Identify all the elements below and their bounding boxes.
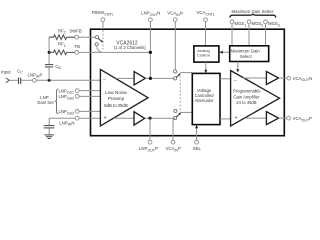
wire LNPINN to bypass cap: [49, 118, 75, 125]
svg-text:Maximum Gain Select: Maximum Gain Select: [232, 9, 275, 14]
box Voltage Controlled Attenuator: [192, 73, 220, 124]
wire buffer P to switch: [145, 117, 174, 119]
pin VCAOUTN terminal: [287, 76, 291, 80]
wire cap to ground: [48, 128, 50, 135]
svg-text:SEL: SEL: [193, 146, 202, 151]
junction FB/LNPOUTN: [149, 51, 152, 54]
wire buffer N to pin: [279, 77, 287, 79]
pin LNPOUTN terminal: [149, 18, 153, 22]
pin MGS3 terminal: [264, 20, 268, 24]
wire switch P to VCA box: [181, 111, 193, 113]
dashed control line FBSW: [102, 30, 104, 50]
wire SWFB into box: [79, 36, 96, 38]
feedback vertical wire: [48, 37, 50, 64]
svg-text:Attenuator: Attenuator: [195, 98, 215, 103]
switch P upper contact: [174, 109, 177, 112]
switch N blade: [176, 75, 179, 77]
wire buffer N to switch: [145, 77, 173, 79]
pin VCAOUTP terminal: [287, 116, 291, 120]
wire FB line to LNP out node: [79, 51, 151, 53]
svg-text:Control: Control: [197, 53, 210, 58]
svg-text:+: +: [104, 115, 107, 121]
svg-text:FB: FB: [75, 44, 81, 49]
wire VCA to PGA minus: [220, 78, 231, 80]
wire PGA out N to buffer: [243, 77, 266, 79]
feedback switch contact to FB line: [97, 46, 102, 52]
svg-text:5dB to 25dB: 5dB to 25dB: [104, 103, 128, 108]
resistor RF1: [49, 50, 75, 55]
pin SEL wire arrow into VCA: [196, 128, 198, 141]
junction LNPOUTP node: [148, 117, 151, 120]
pin LNPOUTP terminal: [148, 140, 152, 144]
arrow MGS to Analog Control: [223, 51, 230, 53]
wire FBSWCNTL down to box: [102, 22, 104, 30]
svg-text:SWFB: SWFB: [69, 28, 82, 33]
IC outline box VCA2612: [91, 29, 285, 136]
junction LNPOUTN node: [149, 77, 152, 80]
wire LNPGS3: [79, 110, 101, 112]
wire buffer P to pin: [279, 117, 287, 119]
pin SEL terminal: [195, 140, 199, 144]
wire VCAINP up to switch: [173, 118, 175, 140]
pin LNPINN terminal: [75, 116, 79, 120]
wire cap to LNPINP: [22, 79, 33, 81]
svg-text:Select: Select: [240, 54, 253, 59]
feedback switch blade: [98, 39, 101, 42]
svg-text:+: +: [235, 115, 238, 121]
box Analog Control: [194, 46, 219, 62]
bypass capacitor: [44, 125, 55, 127]
svg-text:(1 of 2 Channels): (1 of 2 Channels): [114, 45, 146, 50]
buffer LNP N: [134, 72, 145, 85]
junction RF1: [48, 51, 51, 54]
wire LNPOUTP down to pin: [149, 118, 151, 140]
buffer out N: [266, 72, 278, 85]
op-amp PGA triangle: [231, 71, 280, 127]
brace over MGS pins: [230, 14, 276, 18]
buffer out P: [266, 112, 278, 125]
pin FB terminal: [75, 51, 79, 55]
junction input/feedback: [48, 79, 51, 82]
wire LNP out N to buffer: [116, 77, 135, 79]
capacitor CB: [45, 64, 53, 66]
pin FBSWCNTL terminal: [101, 18, 105, 22]
switch N lower contact: [174, 77, 177, 80]
wire VCAINN down to switch: [174, 22, 176, 70]
wire input to cap: [9, 79, 17, 81]
op-amp LNP triangle: [100, 69, 148, 126]
arrow MGS to PGA: [237, 62, 239, 70]
wire LNPOUTN vertical: [149, 22, 151, 79]
wire MGS2: [248, 24, 250, 46]
pin LNPGS2 terminal: [75, 95, 79, 99]
svg-text:Maximum Gain: Maximum Gain: [231, 49, 261, 54]
wire PGA out P to buffer: [245, 117, 267, 119]
pin SWFB terminal: [75, 35, 79, 39]
LNP gain set brace: [55, 89, 58, 114]
pin VCACNTL terminal: [204, 18, 208, 22]
wire LNPGS1: [79, 90, 101, 92]
wire VCACNTL down to Analog Control: [205, 22, 207, 46]
switch P lower contact: [174, 117, 177, 120]
wire MGS3: [265, 24, 267, 46]
switch P blade: [176, 114, 179, 117]
feedback switch upper contact: [96, 36, 99, 39]
ground: [44, 134, 54, 136]
wire LNPINP into box: [36, 79, 101, 81]
svg-text:Preamp: Preamp: [108, 96, 125, 101]
arrow Analog Control to VCA: [205, 62, 207, 70]
pin MGS1 terminal: [230, 20, 234, 24]
svg-text:Gain Set: Gain Set: [37, 100, 55, 105]
svg-text:Input: Input: [1, 70, 11, 75]
pin LNPGS3 terminal: [75, 110, 79, 114]
switch N upper contact: [174, 70, 177, 73]
feedback switch lower contact: [95, 43, 98, 46]
svg-text:Programmable: Programmable: [233, 89, 261, 94]
svg-text:24 to 45dB: 24 to 45dB: [236, 100, 256, 105]
wire MGS1: [231, 24, 233, 46]
wire VCA to PGA plus: [220, 118, 231, 120]
resistor RF2: [49, 35, 75, 40]
box Maximum Gain Select: [230, 46, 269, 62]
pin MGS2 terminal: [247, 20, 251, 24]
svg-text:Gain Amplifier: Gain Amplifier: [233, 94, 260, 99]
wire LNPINN into box: [79, 117, 101, 119]
wire switch N to VCA box: [180, 72, 192, 74]
capacitor CC: [18, 78, 20, 84]
wire LNP out P to buffer: [114, 117, 134, 119]
svg-text:−: −: [234, 78, 237, 84]
pin LNPGS1 terminal: [75, 89, 79, 93]
buffer LNP P: [134, 112, 145, 125]
dashed select line: [179, 76, 181, 113]
wire LNPGS2: [79, 95, 101, 97]
svg-text:Low Noise: Low Noise: [105, 90, 127, 95]
pin VCAINP terminal: [171, 140, 175, 144]
pin LNPINP terminal: [33, 78, 37, 82]
input source chevron: [6, 78, 9, 83]
pin VCAINN terminal: [173, 18, 177, 22]
svg-text:−: −: [103, 78, 106, 84]
